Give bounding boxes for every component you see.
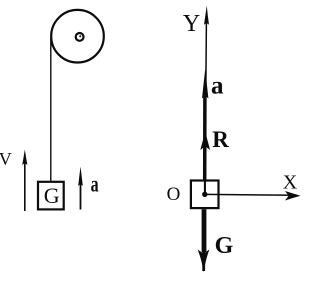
- svg-text:Y: Y: [183, 11, 200, 37]
- wire rope: [50, 38, 52, 181]
- svg-text:O: O: [167, 184, 181, 205]
- vector G (weight): [202, 209, 207, 252]
- svg-text:G: G: [44, 183, 60, 208]
- vector a (right): [203, 96, 207, 180]
- svg-text:G: G: [215, 233, 234, 259]
- arrow a (left): [80, 184, 82, 210]
- X axis: [205, 193, 297, 196]
- hub center mark: [79, 35, 81, 37]
- pulley wheel: [51, 10, 104, 63]
- Y axis: [205, 22, 206, 194]
- origin dot: [202, 192, 207, 197]
- svg-text:X: X: [283, 172, 298, 194]
- svg-text:V: V: [0, 149, 12, 169]
- svg-text:a: a: [91, 172, 99, 197]
- origin block: [191, 181, 219, 209]
- mass block G: [38, 182, 64, 210]
- svg-text:a: a: [211, 73, 224, 100]
- vector R: [200, 132, 210, 151]
- shaft inside origin block: [204, 180, 206, 194]
- svg-text:R: R: [212, 127, 229, 152]
- arrow V: [24, 162, 26, 211]
- pulley hub: [76, 33, 84, 41]
